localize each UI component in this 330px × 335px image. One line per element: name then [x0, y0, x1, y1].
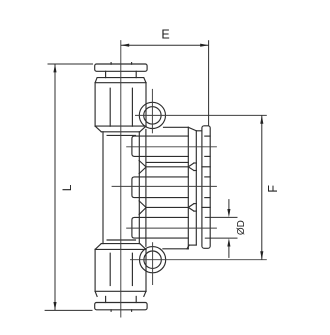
svg-text:ØD: ØD [236, 220, 247, 235]
svg-text:E: E [161, 28, 169, 42]
svg-text:L: L [60, 184, 74, 191]
svg-text:F: F [266, 185, 280, 193]
